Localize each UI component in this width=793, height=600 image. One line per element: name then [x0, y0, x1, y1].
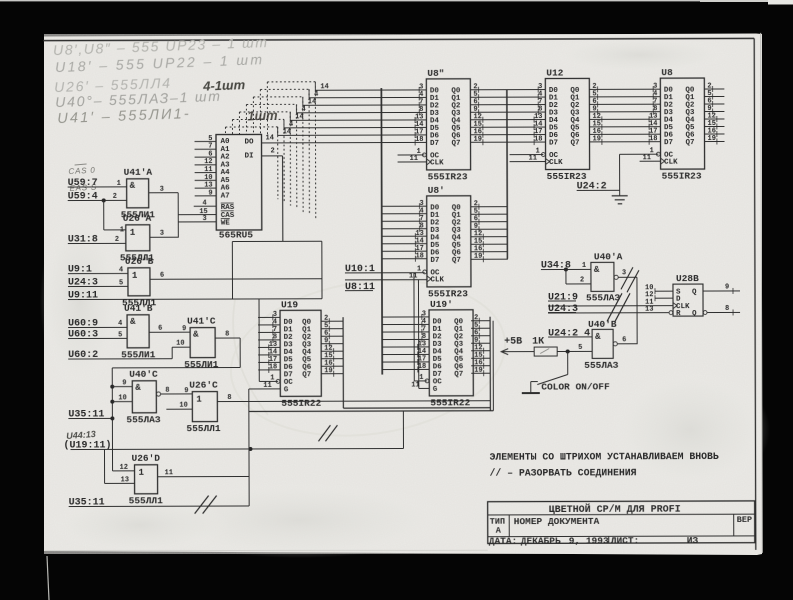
svg-text:5: 5	[578, 344, 582, 352]
svg-text:4: 4	[119, 266, 123, 274]
wire U26'B output pin6	[150, 278, 322, 281]
IC U-RAM 565RU5 body	[216, 134, 262, 230]
wire bus to U8" D0	[315, 89, 426, 91]
wire U8" Q1 output	[470, 96, 545, 98]
svg-text:G: G	[433, 386, 438, 394]
svg-text:1: 1	[196, 395, 202, 405]
U19 D2 pin tick	[272, 329, 274, 335]
svg-text:1: 1	[419, 374, 423, 382]
wire DI vertical bus	[282, 156, 284, 241]
svg-text:Q: Q	[692, 289, 697, 297]
paper sheet	[44, 34, 762, 556]
wire U60:2 riser to pin10	[171, 347, 173, 358]
svg-text:U60:2: U60:2	[68, 350, 98, 361]
wire U19' Q4 output	[471, 350, 490, 352]
IC U12 body	[545, 78, 589, 169]
U12 D2 pin tick	[537, 102, 539, 108]
wire U19 Q2 output	[321, 335, 343, 337]
wire U8' D6 input	[382, 250, 427, 252]
svg-text:9: 9	[182, 325, 186, 333]
svg-text:Q7: Q7	[452, 257, 461, 265]
svg-text:U24:3: U24:3	[548, 304, 578, 315]
U19 Q7 pin tick	[333, 371, 335, 377]
wire U12 Q5 output	[589, 126, 660, 128]
svg-text:9: 9	[208, 189, 212, 197]
svg-text:U12: U12	[546, 67, 563, 78]
svg-text:1К: 1К	[532, 337, 544, 348]
U8" D0 pin tick	[418, 87, 420, 93]
wire U34:8 to U40'A pin1	[541, 268, 591, 270]
U8' Q6 pin tick	[482, 249, 484, 255]
U19 Q1 pin tick	[328, 326, 330, 332]
U8' D4 pin tick	[414, 233, 416, 239]
svg-text:CLK: CLK	[549, 159, 563, 167]
svg-text:19: 19	[592, 135, 600, 143]
svg-text:14: 14	[265, 134, 273, 142]
svg-text:2: 2	[580, 276, 584, 284]
svg-text:6: 6	[160, 272, 164, 280]
wire U40'C output pin8 to U26'C	[161, 393, 193, 395]
svg-text:5: 5	[119, 279, 123, 287]
svg-text:6: 6	[622, 336, 626, 344]
U19' D2 pin tick	[421, 329, 423, 335]
wire A6 stub	[195, 187, 216, 189]
U8" Q4 pin tick	[482, 117, 484, 123]
junction dot U40'C pin10	[110, 400, 114, 404]
svg-text:13: 13	[121, 476, 129, 484]
wire U24:2 to ground	[577, 189, 620, 191]
U19' Q3 pin tick	[478, 340, 480, 346]
svg-text:565RU5: 565RU5	[219, 229, 254, 240]
svg-text:ДАТА:: ДАТА:	[489, 536, 518, 547]
wire A2 stub	[195, 156, 216, 158]
svg-text:11: 11	[410, 155, 418, 163]
frame top border	[43, 38, 754, 40]
title block column divider LIST	[608, 536, 610, 543]
wire U8' Q4 output	[471, 236, 508, 238]
U8 OC bubble	[656, 152, 660, 156]
svg-text:&: &	[135, 383, 141, 393]
U12 Q0 pin tick	[597, 86, 599, 92]
wire U8:11 to U8' CLK	[345, 279, 427, 281]
svg-text:11: 11	[529, 155, 537, 163]
svg-text:COLOR ON/OFF: COLOR ON/OFF	[541, 381, 610, 392]
wire U8" Q4 output	[470, 119, 545, 121]
svg-text:19: 19	[474, 367, 482, 375]
svg-text:1: 1	[120, 226, 124, 234]
U8' CLK wedge	[427, 276, 431, 282]
wire U19:11 long line	[70, 448, 403, 449]
svg-text:1шт: 1шт	[247, 107, 278, 123]
svg-text:ЭЛЕМЕНТЫ СО ШТРИХОМ УСТАНАВЛИВ: ЭЛЕМЕНТЫ СО ШТРИХОМ УСТАНАВЛИВАЕМ ВНОВЬ	[489, 451, 718, 463]
svg-text:2: 2	[113, 193, 117, 201]
U8 D1 pin tick	[652, 94, 654, 100]
mux corner 4 solid stub	[289, 112, 291, 120]
wire U35:11 upper	[68, 417, 112, 419]
wire U19 D6 input	[258, 361, 280, 363]
wire resistor to U40'B pin5	[557, 350, 592, 352]
wire RAS/CAS vertical from gates	[177, 193, 179, 238]
mux corner 2 solid stub	[302, 97, 304, 105]
svg-text:&: &	[193, 330, 199, 340]
wire stub U26'C pin10	[166, 408, 192, 410]
svg-text:3: 3	[203, 215, 207, 223]
U19 Q6 pin tick	[333, 363, 335, 369]
wire U8" Q3 output	[470, 111, 545, 113]
svg-text:18: 18	[269, 363, 277, 371]
U19' Q4 pin tick	[483, 348, 485, 354]
svg-text:НОМЕР ДОКУМЕНТА: НОМЕР ДОКУМЕНТА	[514, 516, 600, 527]
U28B CLK wedge	[673, 303, 677, 309]
U12 Q1 pin tick	[597, 94, 599, 100]
junction dot U19:11	[248, 447, 252, 451]
wire loop vertical right	[321, 241, 323, 298]
wire branch to U40'A pin2	[565, 269, 567, 283]
svg-text:4: 4	[118, 320, 122, 328]
U12 D7 pin tick	[533, 139, 535, 145]
dashed mux line 6 vertical left	[224, 127, 226, 134]
U8" D7 pin tick	[414, 139, 416, 145]
svg-text:U31:8: U31:8	[68, 234, 98, 245]
svg-text:11: 11	[411, 381, 419, 389]
wire U35:11 lower	[69, 505, 249, 508]
wire U8' D2 input	[382, 220, 427, 222]
paper grain noise	[44, 34, 762, 554]
wire U19' Q5 output	[471, 357, 490, 359]
mux corner 1 solid stub	[308, 89, 310, 97]
wire U28B Qbar output	[707, 311, 740, 313]
svg-text:U8': U8'	[428, 185, 445, 196]
wire U26'A output pin3	[150, 236, 178, 238]
svg-text:12: 12	[120, 464, 128, 472]
paper shading blob right	[610, 370, 770, 490]
wire U19' D4 input	[382, 346, 429, 348]
U19 D1 pin tick	[272, 322, 274, 328]
svg-text:D7: D7	[430, 140, 439, 148]
wire U24:3 to U26'B pin5	[68, 285, 128, 287]
svg-text:ДЕКАБРЬ: ДЕКАБРЬ	[521, 535, 561, 546]
wire U19' D2 input	[382, 331, 429, 333]
U19' Q0 pin tick	[478, 318, 480, 324]
U12 Q6 pin tick	[601, 131, 603, 137]
IC U8' body	[427, 196, 471, 287]
wire U19 D3 input	[258, 339, 280, 341]
title block row divider 2	[488, 535, 755, 538]
scanner top edge light line	[0, 0, 793, 1]
wire U8 Q7 output	[705, 140, 725, 142]
U8" CLK wedge	[427, 159, 431, 165]
svg-text:U60:3: U60:3	[68, 329, 98, 340]
U12 Q2 pin tick	[597, 101, 599, 107]
wire U19 D5 input	[258, 354, 280, 356]
wire U19 OC stub	[259, 380, 278, 382]
wire A1 stub	[195, 148, 216, 150]
mux corner 0 solid stub	[314, 82, 316, 90]
U8 Q7 pin tick	[716, 139, 718, 145]
svg-text:1: 1	[117, 180, 121, 188]
dashed mux line 1 vertical right	[308, 89, 310, 215]
svg-text:ВЕР: ВЕР	[737, 515, 752, 525]
svg-text:3: 3	[160, 186, 164, 194]
wire U19 Q4 output	[321, 350, 343, 352]
wire U41'A output pin3	[149, 192, 178, 194]
U12 D5 pin tick	[533, 124, 535, 130]
wire U8" Q7 output	[471, 141, 546, 143]
paper shading blob left	[40, 210, 120, 390]
svg-text:9: 9	[725, 283, 729, 291]
U8" Q2 pin tick	[478, 102, 480, 108]
wire U19' Q7 output	[471, 372, 490, 374]
svg-text:A7: A7	[221, 193, 230, 201]
svg-text:D7: D7	[549, 140, 558, 148]
U8 D5 pin tick	[648, 124, 650, 130]
wire U12 OC stub	[510, 154, 544, 156]
wire U8 Q4 output	[704, 118, 724, 120]
U19' D0 pin tick	[421, 314, 423, 320]
wire U8' D3 input	[382, 228, 427, 230]
gate U26'B body	[128, 268, 150, 296]
svg-text:&: &	[130, 181, 136, 191]
U19 Q5 pin tick	[333, 356, 335, 362]
scanner artifact line bottom left	[47, 556, 49, 600]
U19' Q7 pin tick	[483, 370, 485, 376]
svg-text:U40'B: U40'B	[588, 319, 617, 330]
svg-text:555IR23: 555IR23	[428, 288, 468, 299]
U8' Q4 pin tick	[482, 234, 484, 240]
svg-text:Q7: Q7	[454, 371, 463, 379]
dashed mux line 3 vertical right	[296, 104, 298, 208]
svg-text:555ЛАЗ: 555ЛАЗ	[126, 414, 161, 425]
U19' D5 pin tick	[417, 351, 419, 357]
gate U26'D body	[135, 465, 158, 494]
svg-text:U60:9: U60:9	[68, 318, 98, 329]
wire U19' Q0 output	[471, 320, 490, 322]
U12 Q4 pin tick	[601, 116, 603, 122]
svg-text:Q7: Q7	[571, 139, 580, 147]
svg-text:19: 19	[324, 367, 332, 375]
U19' D1 pin tick	[421, 321, 423, 327]
title block column divider VER	[733, 514, 735, 536]
paper shading blob top	[550, 37, 730, 73]
svg-text:+5В: +5В	[504, 337, 522, 348]
IC U8" body	[426, 79, 470, 170]
U8' D5 pin tick	[414, 241, 416, 247]
wire U8' D0 input	[382, 205, 427, 207]
wire U26'D pin13 riser	[103, 449, 105, 483]
faint crease bottom left	[45, 549, 488, 551]
wire ground stem	[619, 154, 621, 195]
wire CAS stub	[178, 214, 216, 216]
wire U19' D0 input	[382, 316, 429, 318]
U12 D0 pin tick	[537, 87, 539, 93]
wire U8" CLK stub	[398, 161, 427, 163]
bus horizontal pair lower b	[249, 410, 493, 413]
U8' D0 pin tick	[419, 203, 421, 209]
U19 D6 pin tick	[268, 359, 270, 365]
U19 Q0 pin tick	[328, 318, 330, 324]
wire U8" Q5 output	[470, 126, 545, 128]
U12 OC bubble	[541, 153, 545, 157]
U8' Q2 pin tick	[478, 219, 480, 225]
U19 D3 pin tick	[272, 337, 274, 343]
dashed mux line 4 horizontal	[239, 111, 290, 113]
switch contact bracket	[531, 381, 538, 383]
svg-text:2: 2	[271, 147, 275, 155]
switch blade	[537, 374, 568, 384]
wire feedback horizontal	[112, 367, 240, 369]
wire U8 Q2 output	[704, 103, 724, 105]
U8' D6 pin tick	[414, 248, 416, 254]
wire U19 D1 input	[258, 324, 280, 326]
IC U28B body	[673, 284, 703, 316]
U8" Q0 pin tick	[478, 87, 480, 93]
wire U12 Q3 output	[589, 111, 660, 113]
wire U19 D2 input	[258, 331, 280, 333]
wire loop horizontal top	[232, 240, 321, 242]
wire U19 Q3 output	[321, 343, 343, 345]
U8 CLK wedge	[661, 158, 665, 164]
mux corner 3 solid stub	[296, 104, 298, 112]
wire loop vertical left	[231, 242, 233, 299]
U19 Q4 pin tick	[333, 348, 335, 354]
svg-text:1: 1	[139, 468, 145, 478]
break slashes on U35:11 lower	[195, 496, 209, 514]
U8" Q6 pin tick	[482, 132, 484, 138]
svg-text:555IR23: 555IR23	[428, 171, 468, 182]
svg-text:U28B: U28B	[676, 273, 699, 284]
U8" D2 pin tick	[418, 102, 420, 108]
svg-text:U10:1: U10:1	[345, 264, 375, 275]
wire bus to U8" D4	[290, 119, 426, 121]
junction dot U40'C pin9	[110, 385, 114, 389]
U8" OC bubble	[422, 153, 426, 157]
gate U26'A body	[126, 225, 150, 251]
wire to U26'D pin12	[113, 470, 135, 472]
dashed mux line 0 horizontal	[267, 81, 315, 83]
wire A7 stub	[195, 195, 216, 197]
wire U9:1 to U26'B pin4	[68, 272, 128, 274]
wire U28B D stub	[655, 297, 673, 299]
wire riser to bus	[402, 411, 404, 448]
vertical bus right of U8'	[506, 90, 509, 259]
U8 Q0 pin tick	[712, 86, 714, 92]
wire +5V arrow lead	[501, 351, 534, 353]
junction dot U59:4 branch	[102, 198, 106, 202]
wire to U40'C pin10	[112, 401, 132, 403]
wire U8' Q3 output	[471, 228, 508, 230]
title block outer box	[488, 501, 755, 544]
wire U10:1 to U8' OC	[345, 272, 425, 274]
wire switch drop	[567, 351, 569, 374]
svg-text:D7: D7	[430, 257, 439, 265]
U8" Q1 pin tick	[478, 94, 480, 100]
wire U8 Q1 output	[704, 95, 724, 97]
IC U19 body	[280, 310, 321, 396]
wire U28B S stub	[655, 290, 673, 292]
svg-text:13: 13	[645, 306, 653, 314]
svg-text:WE: WE	[221, 220, 231, 228]
wire U40'B output pin6	[617, 343, 637, 345]
wire DI input of 565RU5	[262, 155, 283, 157]
wire U19 Q5 output	[321, 358, 343, 360]
wire U8 Q5 output	[704, 125, 724, 127]
wire U8 Q3 output	[704, 110, 724, 112]
U8 D2 pin tick	[652, 101, 654, 107]
wire U8' Q5 output	[471, 243, 508, 245]
dashed mux line 4 vertical left	[238, 112, 240, 134]
dashed mux line 6 vertical right	[277, 127, 279, 199]
wire U19 OC vertical from U9:11	[258, 299, 260, 381]
svg-text:CLK: CLK	[430, 159, 444, 167]
svg-text:8: 8	[165, 387, 169, 395]
paper right edge shadow	[761, 33, 763, 553]
svg-text:// – РАЗОРВАТЬ СОЕДИНЕНИЯ: // – РАЗОРВАТЬ СОЕДИНЕНИЯ	[490, 467, 637, 478]
wire bus to U8" D6	[278, 134, 427, 136]
svg-text:8: 8	[225, 331, 229, 339]
U12 D3 pin tick	[537, 109, 539, 115]
ground bar for switch	[522, 392, 540, 394]
U8' D7 pin tick	[414, 256, 416, 262]
svg-text:555IR22: 555IR22	[281, 398, 321, 409]
wire to U26'D pin13	[105, 482, 135, 484]
U8' Q3 pin tick	[478, 226, 480, 232]
wire U9:11 long	[68, 298, 322, 301]
svg-text:555IR22: 555IR22	[430, 397, 470, 408]
wire U12 CLK stub	[510, 161, 546, 163]
dashed mux line 1 horizontal	[260, 88, 309, 90]
svg-text:DI: DI	[245, 153, 254, 161]
+5V arrowhead	[501, 349, 508, 355]
gate U40'B body	[592, 329, 613, 358]
wire bus to U8" D2	[303, 104, 427, 106]
svg-text:9: 9	[184, 387, 188, 395]
dashed mux line 3 horizontal	[246, 103, 296, 105]
svg-text:10: 10	[176, 340, 184, 348]
gate U41'B body	[127, 315, 149, 348]
U12 Q5 pin tick	[601, 124, 603, 130]
wire WE stub	[178, 221, 216, 223]
svg-text:10: 10	[179, 402, 187, 410]
wire A4 stub	[195, 172, 216, 174]
svg-text:U40'A: U40'A	[594, 251, 623, 262]
wire U8 CLK stub	[640, 160, 661, 162]
wire U59:7 to U41'A pin1	[68, 186, 127, 188]
wire U8' D1 input	[382, 213, 427, 215]
wire U8 Q0 output	[704, 88, 724, 90]
svg-text:8: 8	[725, 305, 729, 313]
svg-text:U26'D: U26'D	[131, 453, 160, 464]
svg-text:11: 11	[165, 469, 173, 477]
wire U8 Q6 output	[704, 133, 724, 135]
svg-text:Q7: Q7	[302, 371, 311, 379]
svg-text:1: 1	[132, 271, 138, 281]
U8' D1 pin tick	[419, 211, 421, 217]
U12 D6 pin tick	[533, 132, 535, 138]
svg-text:555ЛЛ1: 555ЛЛ1	[186, 423, 221, 434]
svg-text:19: 19	[474, 136, 482, 144]
wire U8' Q2 output	[471, 221, 508, 223]
svg-text:U59:4: U59:4	[68, 191, 98, 202]
ground symbol bars	[612, 195, 628, 197]
wire U24:2 to U40'B pin4	[548, 336, 592, 338]
wire to U40'C pin9	[112, 386, 132, 388]
U8 D3 pin tick	[652, 109, 654, 115]
wire U19' D6 input	[382, 361, 429, 363]
wire U19' Q2 output	[471, 335, 490, 337]
svg-text:2: 2	[115, 236, 119, 244]
wire U19 G / U26'D vertical	[248, 389, 250, 506]
wire U59:4 to U41'A pin2	[68, 199, 127, 201]
